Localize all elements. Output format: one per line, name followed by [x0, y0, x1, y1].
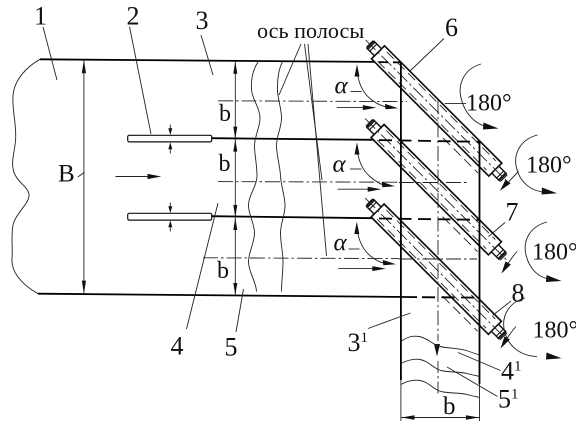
- leader fan to band 1 axis: [279, 44, 301, 95]
- slit line (cut 2): [212, 216, 374, 218]
- rotation arrow no.2: [542, 188, 558, 195]
- band 2 centerline: [218, 181, 399, 184]
- turning bar 8: [365, 198, 507, 340]
- bottom edge hidden continuation to fold: [422, 296, 480, 298]
- leader 3: [201, 35, 213, 75]
- svg-text:α: α: [333, 151, 347, 178]
- svg-text:b: b: [217, 258, 229, 284]
- leader 4-1: [458, 353, 501, 371]
- dimension b line (bottom): [401, 417, 480, 419]
- rotation arc 180 no.1: [460, 64, 491, 127]
- leader 1: [43, 27, 57, 80]
- turned band left edge: [400, 62, 402, 380]
- leader fan to band 3 axis: [308, 44, 327, 256]
- rotation arc 180 no.3: [525, 222, 552, 280]
- shaft rotation curl bar 7: [505, 252, 518, 270]
- svg-text:2: 2: [127, 2, 140, 31]
- slitting knife 2 (upper): [128, 135, 212, 142]
- alpha 2 arc: [357, 148, 389, 186]
- band 1 centerline: [218, 100, 407, 103]
- b arrows at cut 2: [233, 205, 237, 217]
- alpha 1 tick: [351, 91, 362, 93]
- svg-text:α: α: [335, 72, 349, 99]
- alpha 1 arc: [357, 70, 392, 108]
- svg-text:180°: 180°: [533, 318, 576, 344]
- svg-text:ось полосы: ось полосы: [257, 18, 364, 43]
- svg-text:180°: 180°: [532, 240, 576, 266]
- shaft rotation curl bar 8: [504, 327, 517, 345]
- leader 4: [187, 203, 219, 329]
- svg-text:b: b: [219, 151, 231, 177]
- leader 8: [493, 301, 512, 316]
- turning bar 6: [366, 40, 508, 182]
- bottom b arrow left: [401, 415, 414, 419]
- knife press arrow upper (down): [169, 125, 171, 130]
- cut 1 hidden continuation to fold: [379, 140, 480, 142]
- turned band centerline lower: [437, 361, 439, 394]
- leader 6: [410, 39, 444, 72]
- b arrow at top edge: [233, 61, 237, 73]
- leader 2: [130, 27, 152, 135]
- b arrows at cut 1: [233, 127, 237, 139]
- break wavy line b: [276, 61, 285, 292]
- svg-text:1: 1: [34, 2, 47, 31]
- svg-text:7: 7: [506, 198, 519, 227]
- turned band centerline: [437, 99, 439, 341]
- band 3 motion arrow: [338, 268, 373, 270]
- knife press arrow lower (down): [169, 203, 171, 208]
- strip top edge hidden behind bar 6: [379, 61, 401, 63]
- alpha 2 tick: [350, 168, 362, 170]
- break wavy line a: [248, 61, 260, 292]
- dimension b chain line: [234, 62, 236, 296]
- turned band down arrow: [434, 344, 440, 357]
- strip 1 left break edge: [12, 59, 40, 293]
- label B tick: [78, 172, 85, 177]
- band 3 centerline continuation: [399, 258, 477, 260]
- band break wavy 1: [401, 336, 480, 355]
- svg-text:180°: 180°: [466, 91, 512, 117]
- band break wavy 2: [401, 359, 480, 376]
- svg-text:B: B: [58, 161, 75, 188]
- band 3 centerline: [203, 257, 399, 260]
- slitting knife 2 (lower): [128, 213, 212, 220]
- turned band right edge: [479, 142, 481, 384]
- leader 5-1: [447, 367, 498, 397]
- band 1 motion arrow: [337, 107, 364, 109]
- leader fan to band 2 axis: [305, 44, 323, 180]
- svg-text:4: 4: [171, 332, 184, 361]
- tick to bar 6: [445, 102, 466, 104]
- band 2 centerline continuation: [399, 182, 468, 184]
- rotation arc 180 no.4: [504, 298, 537, 357]
- strip 1 bottom edge: [38, 294, 417, 297]
- slit line (cut 1): [212, 138, 374, 140]
- rotation arc 180 no.2: [516, 135, 546, 192]
- turned band right edge extension: [479, 384, 481, 421]
- strip 1 top edge: [40, 59, 374, 62]
- svg-text:b: b: [443, 393, 456, 420]
- turned band left edge extension: [400, 380, 402, 421]
- svg-text:180°: 180°: [526, 153, 572, 179]
- knife press arrow upper (up): [169, 149, 171, 154]
- dimension B arrow top: [82, 60, 86, 73]
- shaft rotation curl bar 6: [504, 172, 519, 188]
- alpha 3 arc: [357, 228, 389, 265]
- svg-text:b: b: [219, 101, 231, 127]
- alpha 3 tick: [349, 248, 360, 250]
- rotation arrow no.1: [483, 123, 499, 130]
- dimension B line: [83, 61, 85, 294]
- dimension B arrow bottom: [82, 281, 86, 294]
- leader 7: [489, 223, 506, 237]
- bottom b arrow right: [466, 415, 479, 419]
- strip motion arrow: [116, 176, 150, 178]
- knife press arrow lower (up): [169, 227, 171, 232]
- rotation arrow no.4: [546, 353, 562, 360]
- leader 5: [236, 289, 244, 332]
- leader 3-1: [368, 313, 411, 329]
- band 2 motion arrow: [338, 188, 370, 190]
- svg-text:5: 5: [225, 333, 238, 362]
- svg-text:3: 3: [196, 6, 209, 35]
- svg-text:α: α: [334, 229, 348, 256]
- rotation arrow no.3: [546, 275, 562, 282]
- cut 2 hidden continuation to fold: [379, 219, 480, 220]
- svg-text:6: 6: [445, 13, 458, 42]
- turning bar 7: [365, 119, 507, 261]
- b arrow at bottom edge: [233, 283, 237, 295]
- band break wavy 3: [401, 380, 480, 397]
- svg-text:8: 8: [512, 279, 525, 308]
